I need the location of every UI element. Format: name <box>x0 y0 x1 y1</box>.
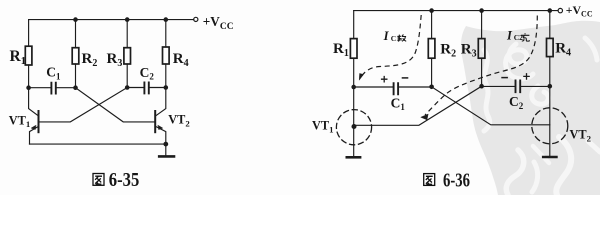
wire: R1 bottom to C1 node <box>28 65 30 88</box>
transistor VT1 dashed circle <box>336 110 371 145</box>
transistor VT1 <box>29 88 39 144</box>
ground bar left figure <box>159 155 174 158</box>
wire: R2 bottom right fig <box>431 58 433 87</box>
resistor R3 <box>124 48 131 64</box>
capacitor C2 plates <box>144 83 148 94</box>
watermark white curl mid <box>532 86 549 104</box>
node: C1 right right fig <box>429 85 434 90</box>
node: C2 right <box>164 85 169 90</box>
capacitor C1 wires <box>29 87 76 89</box>
node: C1 right <box>73 85 78 90</box>
wire: cross-coupling R2 to VT2 base right fig <box>432 87 550 125</box>
resistor R4 <box>163 47 170 64</box>
capacitor C2 wires <box>127 87 166 89</box>
wire: R3 column right fig <box>481 11 483 39</box>
plus sign C2 right fig <box>523 73 530 80</box>
wire: R3 column <box>126 20 128 48</box>
capacitor C1 right fig plates <box>394 83 399 94</box>
wire: VT2 vertical through circle to ground <box>549 86 551 156</box>
minus sign C1 right fig <box>402 77 409 79</box>
node: C1 left right fig <box>351 85 356 90</box>
node: rail-R3 right <box>479 8 484 13</box>
node: rail-R2 <box>73 17 78 22</box>
transistor VT2 <box>155 88 166 145</box>
node: rail-R3 <box>125 17 130 22</box>
junction dots right figure <box>351 8 552 129</box>
wire: R1 bottom to C1 node right fig <box>353 58 355 87</box>
watermark white curl lower <box>506 150 524 195</box>
resistor R2 right fig <box>428 39 435 59</box>
caption glyph TU (figure) left <box>93 174 104 186</box>
wire: bottom emitter rail <box>30 143 166 145</box>
wire: top VCC rail right <box>354 10 558 12</box>
dashed current path IC1 discharge <box>359 15 421 80</box>
wire: R2 bottom to C1 right node <box>75 64 77 88</box>
svg-text:6-35: 6-35 <box>109 169 140 191</box>
node: VT1 center <box>352 124 357 129</box>
dashed current path IC2 charge <box>421 16 538 120</box>
watermark white diagonal bottom right <box>588 141 600 152</box>
watermark white big sweep right <box>556 137 571 195</box>
resistor R3 right fig <box>478 39 485 59</box>
VCC terminal circle <box>194 17 198 21</box>
node: C1 left <box>26 85 31 90</box>
ground bar under VT1 <box>347 156 360 159</box>
VCC terminal circle right <box>558 8 562 12</box>
wire: R1 column top <box>28 20 30 47</box>
node: emitter-ground <box>163 142 168 147</box>
wire: R4 bottom to C2 right node <box>165 64 167 88</box>
capacitor C2 right fig plates <box>516 80 521 92</box>
resistor R1 right fig <box>350 39 357 59</box>
node: rail-R4 right <box>548 8 553 13</box>
wire: R2 column right fig <box>431 11 433 39</box>
resistor R1 <box>25 46 32 65</box>
svg-text:6-36: 6-36 <box>443 169 470 191</box>
wire: cross-coupling R3 node to VT1 base <box>40 88 128 122</box>
capacitor C1 right fig wires <box>354 86 432 88</box>
glyph FANG (discharge) <box>398 34 407 41</box>
junction dots left figure <box>26 17 168 146</box>
watermark white diagonal crossing ground VT2 <box>533 146 549 163</box>
transistor VT2 dashed circle <box>532 108 568 144</box>
capacitor C2 right fig wires <box>482 85 550 87</box>
node: rail-R2 right <box>429 8 434 13</box>
resistor R4 right fig <box>547 38 554 56</box>
node: C2 right right fig <box>548 84 553 89</box>
wire: R4 bottom right fig <box>549 57 551 87</box>
watermark white curl upper <box>506 44 533 79</box>
wire: cross-coupling R3 to VT1 base right fig <box>354 86 482 125</box>
wire: R3 bottom right fig <box>481 58 483 86</box>
wire: top VCC rail <box>29 19 194 21</box>
watermark gray blob <box>461 21 600 195</box>
wire: R3 bottom to C2 left node <box>126 64 128 88</box>
glyph CHONG (charge) <box>521 33 530 41</box>
capacitor C1 plates <box>51 83 55 94</box>
wire: VT1 vertical through circle to ground <box>353 87 355 156</box>
caption glyph TU (figure) right <box>424 174 435 186</box>
watermark white squiggle band left <box>484 50 490 131</box>
svg-text:C2: C2 <box>514 33 523 42</box>
node: C2 left <box>125 85 130 90</box>
resistor R2 <box>72 48 79 64</box>
wire: R4 column <box>165 20 167 47</box>
ground bar under VT2 <box>543 156 556 159</box>
plus sign C1 right fig <box>381 76 388 83</box>
minus sign C2 right fig <box>501 77 508 79</box>
wire: cross-coupling R2 node to VT2 base <box>76 88 155 122</box>
wire: ground stub <box>165 144 167 155</box>
wire: R4 column right fig <box>549 11 551 39</box>
wire: R2 column <box>75 20 77 48</box>
wire: R1 column right fig <box>353 11 355 39</box>
watermark white diagonal top right <box>585 38 597 60</box>
node: rail-R4 <box>164 17 169 22</box>
node: C2 left right fig <box>479 84 484 89</box>
watermark white short stroke lower mid <box>532 162 538 192</box>
